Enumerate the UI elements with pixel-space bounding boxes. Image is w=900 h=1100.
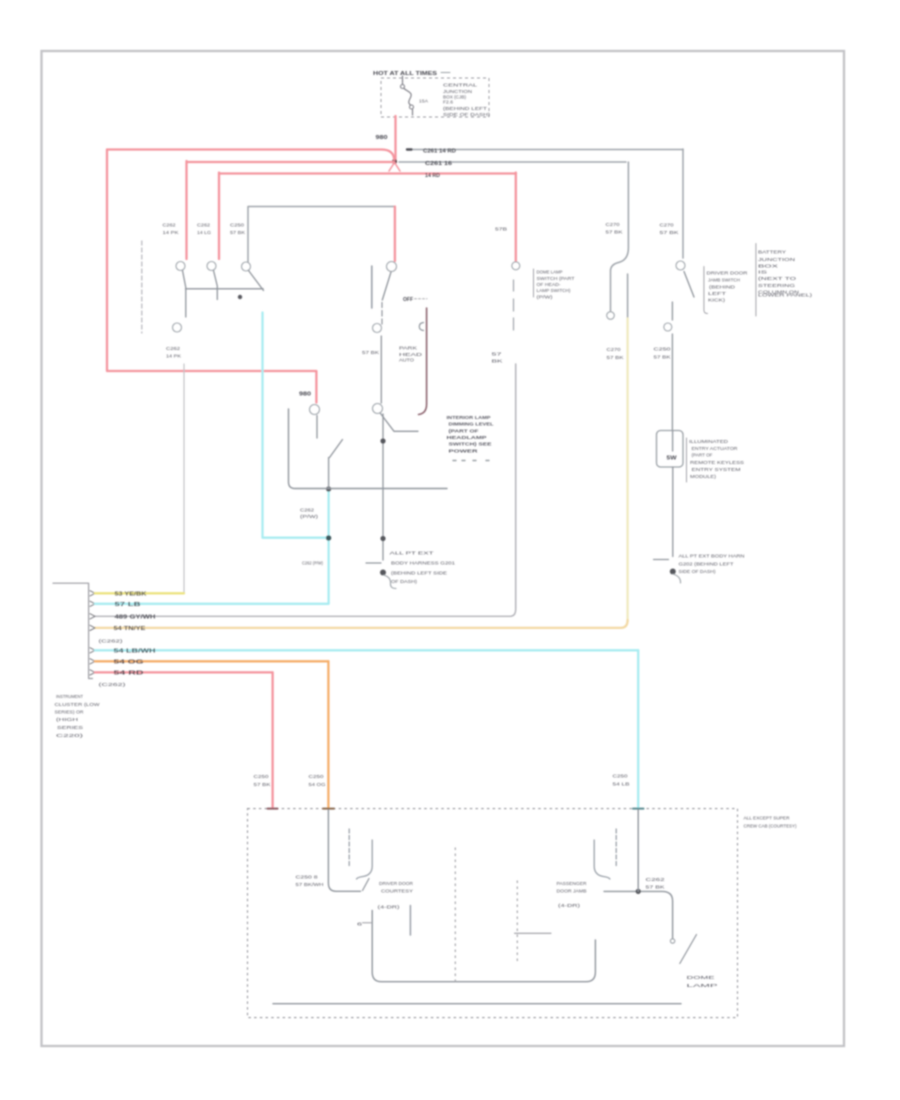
- svg-text:INSTRUMENT: INSTRUMENT: [56, 694, 83, 700]
- svg-text:489 GY/WH: 489 GY/WH: [115, 615, 157, 621]
- connector pin circle (left courtesy switch feed): [512, 262, 520, 270]
- svg-text:(BEHIND LEFT: (BEHIND LEFT: [443, 106, 487, 112]
- svg-text:G202 (BEHIND LEFT: G202 (BEHIND LEFT: [679, 562, 734, 568]
- svg-text:14 LG: 14 LG: [197, 230, 211, 236]
- dark splice marks on dashed box top: [268, 808, 278, 810]
- svg-text:980: 980: [376, 135, 388, 141]
- svg-text:54 LB/WH: 54 LB/WH: [114, 649, 157, 655]
- wire: cyan vertical through junctions to row 2: [327, 490, 329, 604]
- svg-text:C262 (P/W): C262 (P/W): [302, 561, 323, 567]
- svg-text:C262: C262: [166, 346, 180, 352]
- wire: U-bus of interior lamp relay contact: [289, 409, 448, 489]
- splice node S201: [392, 159, 397, 164]
- label 57 BK lower: [492, 352, 504, 365]
- connector pin circle (dome lamp): [607, 312, 615, 320]
- svg-text:IS: IS: [758, 270, 767, 276]
- wire: red branch 3 (bottom, to door switch feed): [219, 172, 516, 174]
- wire: red vertical V3 to switch bank pin 2: [218, 173, 220, 260]
- svg-text:(HIGH: (HIGH: [56, 717, 79, 723]
- connector pin circle 5 (headlamp switch feed): [387, 262, 397, 272]
- svg-text:DOOR JAMB: DOOR JAMB: [557, 889, 587, 895]
- wire: red vertical V4 to left courtesy switch: [515, 173, 517, 262]
- switch arm 1: [183, 271, 186, 318]
- connector pin circle 4: [242, 262, 251, 271]
- left lamp element: [348, 829, 350, 868]
- center switch stage 2 vertical: [380, 336, 382, 403]
- svg-text:SERIES: SERIES: [57, 725, 83, 731]
- svg-text:JUNCTION: JUNCTION: [443, 89, 473, 95]
- driver door jamb switch label block: [704, 267, 748, 314]
- svg-text:57 BK: 57 BK: [646, 885, 666, 891]
- svg-text:ILLUMINATED: ILLUMINATED: [689, 439, 729, 445]
- svg-text:SIDE OF DASH): SIDE OF DASH): [443, 112, 491, 118]
- svg-text:(C262): (C262): [99, 682, 127, 688]
- connector pin circle 7 (stage 2 pivot): [373, 404, 383, 414]
- ground G202 (right): [654, 554, 746, 584]
- svg-text:BATTERY: BATTERY: [758, 250, 787, 256]
- svg-text:C220): C220): [56, 733, 84, 739]
- svg-text:SWITCH (PART: SWITCH (PART: [537, 276, 575, 282]
- svg-text:57 BK: 57 BK: [660, 230, 680, 236]
- svg-text:54 TN/YE: 54 TN/YE: [114, 626, 147, 632]
- svg-text:C261 14 RD: C261 14 RD: [423, 148, 456, 154]
- svg-text:C250: C250: [230, 223, 244, 229]
- wire: row3 gray to left courtesy switch, up to contact: [95, 364, 516, 616]
- label PARK/HEAD positions: [399, 346, 423, 364]
- svg-text:14 PK: 14 PK: [166, 354, 182, 360]
- dimmer rheostat wire (dark red): [419, 308, 427, 415]
- connector pins: [90, 591, 95, 675]
- svg-text:INTERIOR LAMP: INTERIOR LAMP: [447, 415, 492, 421]
- junction dot (cyan feed): [636, 889, 641, 894]
- connector pin circle 1: [176, 262, 185, 271]
- tick in middle: [515, 932, 552, 934]
- svg-text:BOX: BOX: [758, 264, 780, 270]
- svg-text:ALL PT EXT: ALL PT EXT: [390, 551, 434, 557]
- pin cap: [670, 939, 674, 943]
- connector pin circle (right door jamb): [676, 261, 685, 270]
- svg-text:C262: C262: [163, 223, 176, 229]
- svg-text:F2.6: F2.6: [443, 100, 453, 106]
- wire: left lamp bottom bus: [372, 911, 595, 982]
- junction dot cyan top: [326, 486, 331, 491]
- svg-text:C270: C270: [606, 222, 620, 228]
- svg-text:53 YE/BK: 53 YE/BK: [115, 592, 148, 598]
- svg-text:C250: C250: [309, 774, 324, 780]
- label C270 57 BK (right): [660, 223, 680, 236]
- svg-text:54 RD: 54 RD: [114, 671, 145, 677]
- junction dot: [238, 295, 242, 299]
- svg-text:C262: C262: [300, 508, 314, 514]
- connector labels above switch bank: [163, 223, 246, 236]
- label C270 57 BK (dome lamp): [606, 222, 624, 236]
- svg-text:CENTRAL: CENTRAL: [443, 83, 478, 89]
- wire: red feed from fuse down to splice: [394, 116, 396, 159]
- svg-text:(PART OF: (PART OF: [692, 453, 713, 459]
- svg-text:DIMMING LEVEL: DIMMING LEVEL: [449, 422, 494, 428]
- svg-text:LEFT: LEFT: [708, 291, 726, 297]
- switch arm stage 2: [381, 414, 419, 432]
- svg-text:JUNCTION: JUNCTION: [758, 257, 796, 263]
- wire: orange drop: [327, 661, 329, 808]
- wire: red branch 1 left (top): [107, 150, 394, 160]
- wire: cyan feed inside box: [637, 810, 639, 891]
- wire: splice fan-out to branch 3: [389, 163, 400, 172]
- svg-text:C262: C262: [197, 223, 210, 229]
- svg-text:(4-DR): (4-DR): [378, 905, 401, 911]
- connector pin circle 6: [373, 324, 382, 333]
- courtesy lamps assembly dashed box: [248, 809, 738, 1018]
- dome lamp switch arm (bottom right): [680, 935, 697, 964]
- svg-text:KICK): KICK): [708, 298, 726, 304]
- wire: actuator to ground: [672, 467, 674, 557]
- svg-text:DOME LAMP: DOME LAMP: [537, 270, 563, 276]
- wire: stub below autolamp feed: [316, 416, 318, 439]
- svg-text:JAMB SWITCH: JAMB SWITCH: [708, 278, 741, 284]
- svg-text:57 LB: 57 LB: [115, 602, 142, 608]
- illuminated entry actuator box: [657, 431, 684, 468]
- junction dot: [380, 536, 385, 541]
- svg-text:CLUSTER (LOW: CLUSTER (LOW: [55, 702, 101, 708]
- svg-text:ENTRY SYSTEM: ENTRY SYSTEM: [692, 467, 741, 473]
- wire: red drop into headlamp switch: [394, 207, 396, 262]
- right courtesy switch label: [557, 881, 588, 909]
- label C250 8: [296, 875, 325, 889]
- svg-text:DRIVER DOOR: DRIVER DOOR: [379, 881, 414, 887]
- svg-text:PARK: PARK: [399, 346, 418, 352]
- stationary contact bar: [371, 266, 373, 308]
- wire: red drop: [271, 672, 273, 808]
- svg-text:REMOTE KEYLESS: REMOTE KEYLESS: [690, 460, 744, 466]
- svg-text:SWITCH) SEE: SWITCH) SEE: [449, 442, 493, 448]
- svg-text:C262: C262: [646, 877, 666, 883]
- svg-text:ENTRY ACTUATOR: ENTRY ACTUATOR: [692, 446, 739, 452]
- wire: right switch feed: [604, 891, 673, 938]
- label C250 54 OG (orange drop): [309, 774, 326, 788]
- svg-text:C270: C270: [607, 347, 621, 353]
- right lamp element: [615, 829, 617, 868]
- switch travel dashes: [381, 303, 383, 325]
- svg-text:14 RD: 14 RD: [425, 173, 440, 179]
- svg-text:(C262): (C262): [99, 639, 124, 645]
- svg-text:CREW CAB (COURTESY): CREW CAB (COURTESY): [744, 824, 797, 830]
- svg-text:ALL EXCEPT SUPER: ALL EXCEPT SUPER: [744, 816, 791, 822]
- wire: red branch 2 left (middle): [188, 161, 395, 163]
- svg-text:5W: 5W: [667, 456, 677, 462]
- svg-text:(BEHIND: (BEHIND: [709, 284, 736, 290]
- svg-text:HEAD: HEAD: [399, 352, 423, 358]
- junction dot: [380, 438, 385, 443]
- headlamp switch arm (upper stage): [382, 272, 391, 300]
- svg-text:(P/W): (P/W): [537, 294, 554, 300]
- label C262 (P/W) upper: [300, 508, 319, 521]
- fuse block: central junction box (hot at all times): [373, 71, 489, 117]
- label C262 (right inside): [646, 877, 666, 891]
- fuse F2.6 15A: [401, 76, 429, 115]
- wire: red vertical V2 to switch bank pin 1: [185, 161, 187, 259]
- svg-text:MODULE): MODULE): [690, 474, 716, 480]
- svg-text:(P/W): (P/W): [300, 514, 319, 520]
- wire: row2 cyan: [95, 603, 329, 605]
- svg-text:BODY HARNESS G201: BODY HARNESS G201: [391, 561, 455, 567]
- svg-text:54 OG: 54 OG: [114, 660, 144, 666]
- svg-text:(NEXT TO: (NEXT TO: [758, 276, 796, 282]
- svg-text:OF HEAD-: OF HEAD-: [537, 282, 561, 288]
- wire: faint lamp column down to connector row 1: [183, 364, 185, 593]
- box label: all except supercrew: [744, 816, 797, 830]
- wire: row7 orange: [95, 660, 328, 662]
- wire: bus between switch throws: [186, 288, 264, 290]
- wire: continues to illuminated entry actuator: [671, 334, 673, 430]
- battery junction label block (far right): [756, 244, 813, 317]
- switch arm 3 (to cyan courtesy feed): [249, 271, 264, 291]
- label C250 57 BK: [654, 347, 672, 361]
- interior lamps note (dark block): [447, 415, 494, 461]
- label 57 BK: [495, 227, 507, 233]
- junction dot cyan mid: [326, 535, 331, 540]
- svg-text:C250: C250: [654, 347, 671, 353]
- svg-text:HEADLAMP: HEADLAMP: [447, 435, 488, 441]
- svg-text:C250: C250: [254, 774, 269, 780]
- wire: cyan drop to rear courtesy: [637, 650, 639, 808]
- svg-text:57 BK: 57 BK: [654, 355, 672, 361]
- svg-text:COURTESY: COURTESY: [381, 889, 414, 895]
- pin hook on dimmer wire: [419, 323, 423, 331]
- svg-text:14 PK: 14 PK: [163, 230, 180, 236]
- wire: right switch output: [671, 302, 673, 320]
- label C250 57 BK (red drop): [254, 774, 272, 788]
- instrument cluster connector C220 outline: [53, 583, 93, 678]
- svg-text:LAMP: LAMP: [687, 983, 718, 989]
- wire end tick C261: [407, 148, 412, 150]
- wire: red vertical V1 + run to headlamp switch: [107, 150, 316, 403]
- svg-text:SERIES) OR: SERIES) OR: [55, 710, 85, 716]
- left courtesy switch arm: [363, 879, 370, 891]
- actuator label block: [687, 438, 745, 482]
- label C262 14 PK below: [166, 346, 182, 360]
- wire: row1 yellow courtesy lamp: [95, 592, 184, 594]
- svg-text:C270: C270: [660, 223, 674, 229]
- wire: yellow return from dome lamp (vertical): [626, 319, 628, 622]
- svg-text:57 BK: 57 BK: [254, 782, 272, 788]
- svg-text:57 BK: 57 BK: [606, 230, 624, 236]
- svg-text:C250: C250: [613, 774, 628, 780]
- svg-text:OFF: OFF: [403, 297, 413, 303]
- svg-text:BK: BK: [492, 359, 504, 365]
- wire: row6 cyan to rear: [95, 649, 638, 651]
- svg-text:57B: 57B: [495, 227, 507, 233]
- wire: gray box edge to dome lamp switch: [248, 207, 395, 263]
- dome lamp switch block label: [534, 269, 575, 300]
- svg-text:15A: 15A: [419, 99, 429, 105]
- right door jamb switch arm: [684, 272, 694, 298]
- svg-text:OF DASH): OF DASH): [391, 579, 417, 585]
- instrument cluster label block: [55, 694, 101, 739]
- label 57 BK (below dome lamp): [607, 347, 625, 361]
- switch arm 2: [214, 271, 218, 300]
- svg-text:57 BK: 57 BK: [230, 230, 246, 236]
- wire: row8 red: [95, 671, 273, 673]
- svg-text:54 OG: 54 OG: [309, 782, 326, 788]
- connector pin circle 3: [207, 262, 216, 271]
- wire: gray continuation right at y162 to dome lamp: [399, 161, 626, 163]
- label C250 54 LB (cyan drop): [613, 774, 630, 788]
- svg-text:C261 16: C261 16: [425, 161, 452, 167]
- wire: gray continuation right at y150 to right door jamb switch: [407, 149, 683, 151]
- svg-text:LOWER PANEL): LOWER PANEL): [758, 293, 813, 299]
- svg-text:LAMP SWITCH): LAMP SWITCH): [537, 288, 571, 294]
- svg-text:57 BK: 57 BK: [362, 350, 380, 356]
- wire: right gray line down to right door jamb switch: [682, 149, 684, 258]
- svg-text:(BEHIND LEFT SIDE: (BEHIND LEFT SIDE: [391, 571, 447, 577]
- dotted divider 2: [516, 881, 518, 965]
- switch travel dashes (left courtesy switch): [513, 280, 515, 330]
- connector pin circle 2 (to courtesy lamp feed): [173, 323, 182, 332]
- svg-text:DRIVER DOOR: DRIVER DOOR: [707, 271, 749, 277]
- connector pin circle (autolamp feed): [310, 405, 320, 415]
- left courtesy switch label: [378, 881, 414, 911]
- svg-text:STEERING: STEERING: [758, 283, 795, 289]
- dashed linkage line (left): [141, 241, 143, 333]
- dome lamp label: [687, 975, 718, 989]
- svg-text:SIDE OF DASH): SIDE OF DASH): [679, 569, 716, 575]
- wire: left feed inside box: [328, 810, 360, 891]
- svg-text:57: 57: [492, 352, 503, 358]
- svg-text:54 LB: 54 LB: [613, 782, 630, 788]
- ground G201 (center): [366, 551, 455, 589]
- switch arm (auto lamp): [330, 440, 343, 458]
- svg-text:57 BK: 57 BK: [607, 355, 625, 361]
- label: central junction box location note: [443, 83, 491, 118]
- dome lamp feed hook: [611, 162, 629, 311]
- dotted divider 1: [454, 848, 456, 983]
- dome lamp right leg: [627, 274, 629, 319]
- connector pin circle: [664, 323, 672, 331]
- wire: arm pivot to junction: [328, 458, 330, 489]
- svg-text:57 BK/WH: 57 BK/WH: [296, 882, 325, 888]
- svg-text:AUTO: AUTO: [399, 358, 414, 364]
- wire: cyan from dome switch down and over: [263, 313, 327, 538]
- wire: center ground drop: [382, 414, 384, 560]
- svg-text:BOX (CJB): BOX (CJB): [443, 95, 466, 101]
- svg-text:980: 980: [299, 392, 311, 398]
- svg-text:(PART OF: (PART OF: [449, 428, 479, 434]
- svg-text:POWER: POWER: [449, 449, 479, 455]
- svg-text:C250 8: C250 8: [296, 875, 318, 881]
- svg-text:ALL PT EXT BODY HARN: ALL PT EXT BODY HARN: [679, 554, 746, 560]
- svg-text:(4-DR): (4-DR): [558, 903, 581, 909]
- svg-text:6: 6: [357, 922, 363, 928]
- svg-text:HOT AT ALL TIMES: HOT AT ALL TIMES: [373, 71, 438, 77]
- svg-text:DOME: DOME: [687, 975, 715, 981]
- svg-text:PASSENGER: PASSENGER: [557, 881, 588, 887]
- contact bar left: [409, 906, 411, 936]
- wire: tan row 4 to instrument cluster: [95, 620, 628, 628]
- wire: bottom return bus: [273, 1003, 681, 1005]
